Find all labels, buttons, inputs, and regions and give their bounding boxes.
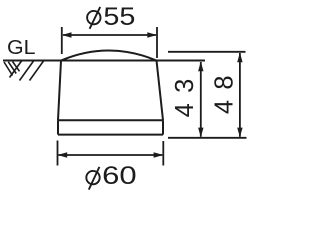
dim phi60 value label phi symbol [85, 167, 100, 190]
fixture base seam line [58, 119, 163, 121]
dim phi55 value label phi symbol [86, 7, 101, 29]
dim 43 down arrowhead [198, 128, 203, 138]
dim 48 down arrowhead [237, 128, 242, 138]
dim phi60 left arrowhead [58, 152, 68, 157]
dim 48 dimension line [239, 53, 241, 137]
svg-text:GL: GL [7, 37, 36, 59]
svg-text:55: 55 [103, 3, 135, 31]
ground line GL [3, 60, 205, 62]
bottom reference line [168, 137, 247, 139]
fixture dome arc [61, 51, 157, 61]
dim phi60 left extension line [57, 141, 59, 166]
dim phi55 right arrowhead [147, 32, 157, 37]
dim phi55 right extension line [156, 27, 158, 58]
dim phi55 left arrowhead [62, 32, 72, 37]
dim 43 up arrowhead [198, 62, 203, 72]
fixture base right edge [162, 120, 164, 134]
fixture left side wall [58, 61, 61, 121]
fixture base left edge [57, 120, 59, 134]
dim 48 up arrowhead [237, 53, 242, 63]
dim phi60 dimension line [59, 154, 163, 156]
svg-text:60: 60 [102, 162, 137, 190]
dim phi55 dimension line [63, 34, 156, 36]
svg-text:43: 43 [171, 68, 199, 117]
fixture bottom edge [58, 134, 163, 136]
fixture right side wall [157, 61, 164, 121]
svg-text:48: 48 [211, 65, 239, 114]
dim 43 dimension line [200, 62, 202, 137]
ground hatch [4, 61, 44, 81]
dim phi60 right arrowhead [154, 152, 164, 157]
dim 48 top reference line [168, 51, 246, 53]
dim phi55 left extension line [61, 27, 63, 54]
dim phi60 right extension line [162, 141, 164, 166]
